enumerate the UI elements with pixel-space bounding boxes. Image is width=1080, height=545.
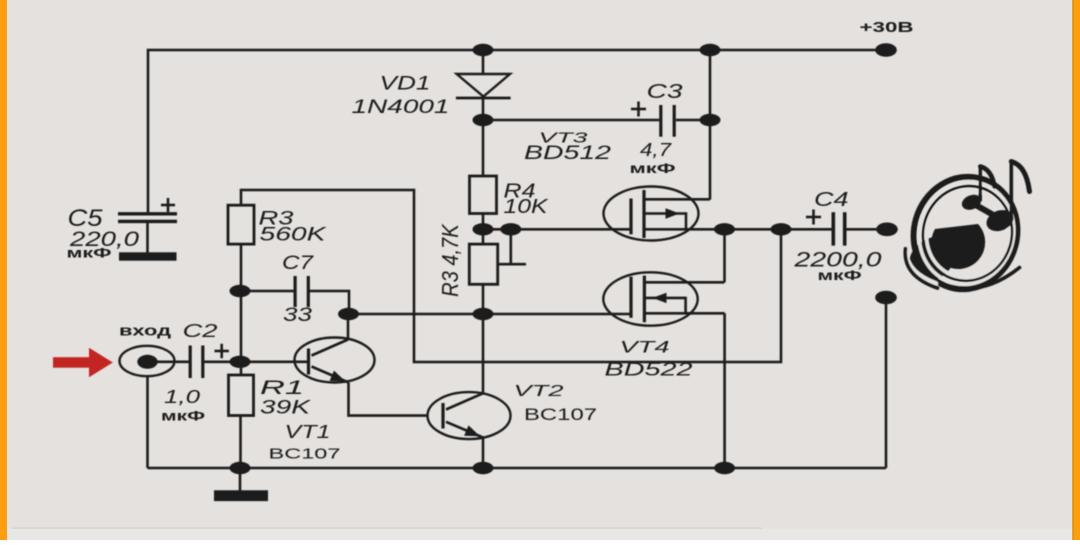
svg-text:1,0: 1,0 <box>164 387 200 407</box>
svg-text:BC107: BC107 <box>524 406 597 424</box>
svg-text:1N4001: 1N4001 <box>352 97 450 118</box>
svg-text:VT4: VT4 <box>620 338 670 357</box>
svg-text:BD512: BD512 <box>524 143 612 164</box>
svg-text:39K: 39K <box>260 398 312 419</box>
svg-text:10K: 10K <box>504 196 550 218</box>
svg-text:мкФ: мкФ <box>161 408 205 424</box>
svg-text:C7: C7 <box>282 253 315 274</box>
svg-text:C4: C4 <box>814 189 849 211</box>
svg-text:VD1: VD1 <box>380 74 431 95</box>
svg-text:33: 33 <box>283 305 313 326</box>
svg-text:R1: R1 <box>260 378 304 399</box>
svg-text:4,7: 4,7 <box>640 140 672 160</box>
svg-text:+30В: +30В <box>860 19 914 36</box>
svg-text:BC107: BC107 <box>269 446 341 463</box>
svg-text:мкФ: мкФ <box>818 267 862 283</box>
svg-text:вход: вход <box>119 323 172 340</box>
svg-text:560K: 560K <box>260 225 328 246</box>
svg-text:C2: C2 <box>183 321 218 341</box>
svg-text:C3: C3 <box>647 81 683 103</box>
svg-text:мкФ: мкФ <box>67 245 112 261</box>
svg-text:VT2: VT2 <box>514 383 564 400</box>
svg-text:R3 4,7K: R3 4,7K <box>437 223 463 297</box>
svg-text:мкФ: мкФ <box>630 160 676 176</box>
svg-text:BD522: BD522 <box>605 360 693 380</box>
svg-text:VT1: VT1 <box>285 422 331 442</box>
